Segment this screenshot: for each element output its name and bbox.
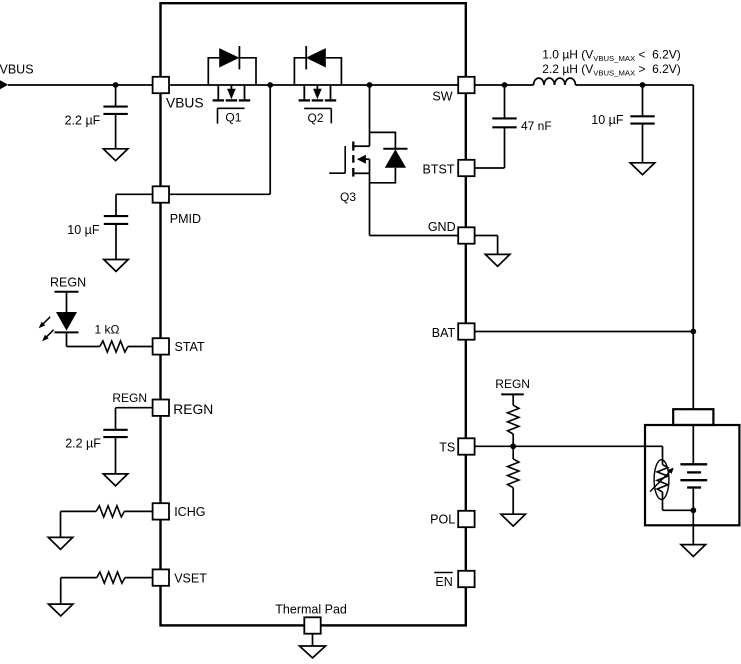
wire ICHG pin to R2 [124, 510, 152, 512]
svg-text:VBUS: VBUS [0, 62, 34, 76]
svg-text:POL: POL [430, 513, 455, 527]
wire battery to ground [692, 510, 694, 544]
ground C2 [104, 260, 129, 272]
pin GND [458, 227, 474, 243]
pin label STAT [175, 340, 205, 354]
svg-text:REGN: REGN [50, 275, 86, 289]
thermistor RTH arrow [650, 468, 674, 492]
svg-text:PMID: PMID [170, 212, 201, 226]
svg-text:REGN: REGN [112, 391, 147, 405]
pin POL [458, 511, 474, 527]
junction battery bottom [690, 507, 696, 513]
pin VSET [153, 569, 169, 585]
svg-text:BTST: BTST [423, 163, 455, 177]
pin REGN [153, 400, 169, 416]
pin Thermal Pad [304, 617, 320, 633]
pin label Thermal Pad [275, 603, 347, 617]
transistor Q3 channel [352, 142, 354, 177]
pin TS [458, 438, 474, 454]
thermistor RTH zigzag [657, 465, 668, 492]
svg-text:STAT: STAT [175, 340, 205, 354]
pin VBUS [153, 77, 169, 93]
wire TS pin to thermistor [475, 445, 663, 447]
wire R2 to ground [61, 511, 97, 537]
transistor Q2 channel [299, 99, 337, 101]
wire Q3 source down [369, 159, 371, 235]
wire SW node down to Q3 drain [369, 85, 371, 146]
junction SW/C5 [502, 82, 508, 88]
transistor Q1 body arrow [227, 89, 236, 100]
resistor R1 1k [100, 341, 128, 352]
wire inductor to BAT rail [576, 84, 694, 86]
value label C1 [65, 113, 101, 127]
ground thermal pad [300, 646, 326, 658]
wire VBUS rail [169, 84, 458, 86]
transistor Q3 body arrow [357, 155, 366, 164]
svg-text:Q2: Q2 [308, 111, 324, 125]
wire LED to R1 [67, 332, 100, 346]
transistor Q1 gate [218, 108, 245, 123]
pin PMID [153, 186, 169, 202]
wire REGN to RT1 [512, 394, 514, 405]
svg-text:47 nF: 47 nF [521, 119, 552, 133]
op-amp U1 charger IC body outline [161, 3, 466, 625]
junction Q1/Q2 midpoint [267, 82, 273, 88]
ground RT2 [501, 514, 526, 526]
svg-text:SW: SW [432, 90, 452, 104]
pin STAT [153, 338, 169, 354]
pin label EN (active low) [434, 573, 453, 590]
pin label POL [430, 513, 455, 527]
LED D1 light arrows [39, 317, 54, 342]
pin BTST [458, 160, 474, 176]
svg-text:2.2 µF: 2.2 µF [65, 113, 101, 127]
junction L1/C4 [640, 82, 646, 88]
value label C2 [67, 223, 100, 237]
thermistor RTH ellipse [654, 460, 669, 500]
transistor Q2 body arrow [313, 89, 322, 100]
REGN net tap bar (LED) [55, 291, 79, 293]
pin label SW [432, 90, 452, 104]
transistor Q1 channel [213, 99, 251, 101]
wire thermistor drop [662, 446, 664, 464]
wire BAT pin to battery [475, 331, 694, 333]
ground C3 [103, 474, 128, 486]
wire R3 to ground [61, 578, 97, 605]
inductor L1 [534, 78, 576, 85]
wire C1 up [115, 85, 117, 107]
svg-text:GND: GND [428, 220, 456, 234]
VBUS input port arrow [0, 80, 8, 89]
svg-text:Q1: Q1 [225, 111, 241, 125]
pin label PMID [170, 212, 201, 226]
transistor Q3 drain contact [354, 145, 370, 147]
wire C4 down [642, 124, 644, 163]
diode Q2 body diode [306, 46, 326, 69]
svg-text:EN: EN [435, 575, 452, 589]
transistor Q2 gate [304, 108, 331, 123]
transistor Q3 source contact [354, 172, 370, 174]
pin label BAT [432, 326, 456, 340]
value label C4 [591, 113, 624, 127]
ground battery [681, 545, 706, 557]
svg-text:Q3: Q3 [340, 190, 356, 204]
wire cell bottom [692, 488, 694, 511]
ground R3 [48, 604, 72, 616]
battery BT1 cells [680, 464, 707, 487]
ground C1 [103, 149, 128, 161]
pin SW [458, 77, 474, 93]
transistor Q2 contacts [304, 85, 330, 99]
resistor R3 VSET [97, 572, 125, 583]
pin label TS [439, 440, 455, 454]
node REGN label (TS) [495, 377, 530, 391]
junction TS divider [510, 443, 516, 449]
ground C4 [630, 163, 655, 175]
capacitor C4 10uF output [630, 116, 654, 123]
svg-text:VBUS: VBUS [166, 96, 204, 111]
node REGN label (pin) [112, 391, 147, 405]
wire PMID to Q1/Q2 midpoint [169, 85, 270, 194]
junction Q2/SW/Q3 [367, 82, 373, 88]
transistor Q1 contacts [218, 85, 244, 99]
capacitor C1 2.2uF [103, 107, 127, 114]
value label C5 [521, 119, 552, 133]
junction VBUS/C1 [113, 82, 119, 88]
wire REGN to LED [66, 292, 68, 312]
svg-text:TS: TS [439, 440, 455, 454]
resistor RT1 TS pull-up [508, 405, 519, 434]
svg-text:10 µF: 10 µF [591, 113, 624, 127]
transistor Q3 gate [329, 146, 345, 173]
diode Q1 body diode [219, 46, 239, 69]
label Q3 [340, 190, 356, 204]
REGN net tap bar (TS) [501, 393, 524, 395]
wire SW pin to inductor [475, 84, 534, 86]
wire PMID to C2 [116, 194, 152, 216]
wire thermistor to battery bottom [663, 492, 694, 510]
transistor Q1 body-diode loop [208, 58, 256, 85]
svg-text:Thermal Pad: Thermal Pad [275, 603, 347, 617]
wire C5 bootstrap top [504, 85, 506, 118]
diode Q3 body diode [383, 149, 407, 168]
pin label BTST [423, 163, 455, 177]
svg-text:VSET: VSET [174, 572, 207, 586]
wire C2 down [115, 224, 117, 260]
transistor Q3 body contact [364, 158, 370, 160]
pin label ICHG [174, 505, 205, 519]
pin label VBUS [166, 96, 204, 111]
transistor Q3 diode loop [370, 132, 396, 182]
battery pack terminal tab [673, 409, 713, 425]
node REGN label (LED) [50, 275, 86, 289]
value label R1 [95, 322, 120, 336]
wire GND pin to ground [475, 236, 498, 255]
wire C5 to BTST pin [475, 127, 505, 168]
junction BAT [690, 329, 696, 335]
wire VBUS input to pin [8, 84, 152, 86]
wire R1 to STAT pin [128, 346, 152, 348]
wire REGN pin to C3 [116, 408, 153, 430]
capacitor C5 47nF bootstrap [492, 118, 516, 127]
wire BAT rail down [692, 85, 694, 332]
pin EN [458, 571, 474, 587]
value label C3 [65, 437, 101, 451]
ground R2 [48, 537, 73, 549]
value label L1 line2 [542, 62, 681, 78]
pin label VSET [174, 572, 207, 586]
wire thermal pad to ground [312, 634, 314, 646]
label Q1 [225, 111, 241, 125]
resistor RT2 TS pull-down [508, 459, 519, 488]
svg-text:ICHG: ICHG [174, 505, 205, 519]
capacitor C3 2.2uF [103, 430, 127, 437]
pin label GND [428, 220, 456, 234]
wire TS node to RT2 [512, 446, 514, 459]
svg-text:10 µF: 10 µF [67, 223, 100, 237]
pin BAT [458, 323, 474, 339]
wire RT2 to ground [512, 488, 514, 515]
node VBUS input label [0, 62, 34, 76]
value label L1 line1 [542, 47, 681, 63]
wire RT1 to TS node [512, 434, 514, 446]
wire BAT down to pack [692, 332, 694, 410]
resistor R2 ICHG [96, 506, 124, 517]
wire C3 down [115, 437, 117, 474]
wire C1 down [115, 114, 117, 149]
capacitor C2 10uF [104, 216, 128, 224]
wire VSET pin to R3 [125, 577, 152, 579]
svg-text:REGN: REGN [173, 402, 213, 417]
battery pack outline [645, 425, 739, 525]
LED D1 [55, 312, 79, 332]
pin label REGN [173, 402, 213, 417]
svg-text:REGN: REGN [495, 377, 530, 391]
wire tab to cell [692, 425, 694, 464]
svg-text:1 kΩ: 1 kΩ [95, 322, 120, 336]
svg-text:2.2 µF: 2.2 µF [65, 437, 101, 451]
wire Q3 to GND pin [370, 235, 458, 237]
label Q2 [308, 111, 324, 125]
pin ICHG [153, 503, 169, 519]
svg-text:BAT: BAT [432, 326, 456, 340]
transistor Q2 body-diode loop [294, 58, 341, 85]
wire C4 top [642, 85, 644, 116]
ground GND pin [485, 254, 510, 266]
